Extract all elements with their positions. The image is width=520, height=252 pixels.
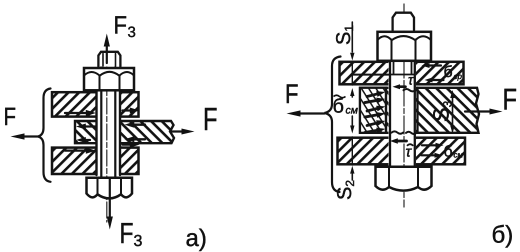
force arrow F right (fig a)	[172, 130, 185, 132]
svg-text:см: см	[346, 105, 358, 117]
nut N1 facets	[100, 76, 120, 90]
bolt B1 protruding threaded end	[98, 52, 120, 67]
brace left (fig b)	[325, 57, 341, 193]
force arrow F right (fig b)	[465, 110, 492, 112]
nut N2 facets	[392, 40, 416, 61]
svg-text:τ: τ	[408, 72, 414, 88]
plate 1 (top plate, fig a)	[52, 92, 139, 116]
force arrow F3 down	[109, 179, 111, 218]
friction arrows: middle plate top (point left)	[84, 125, 96, 127]
svg-text:3: 3	[128, 24, 136, 41]
bolt B2 head	[376, 167, 432, 191]
dim line S3	[452, 95, 454, 126]
svg-text:а): а)	[186, 225, 207, 252]
svg-text:F: F	[4, 103, 17, 131]
friction arrows: bottom plate top (point right)	[65, 149, 87, 151]
middle plate hole edges	[386, 88, 418, 133]
shear plane marks lower: squiggles + bold left arrow	[392, 131, 404, 133]
brace left (fig a)	[38, 89, 51, 182]
svg-text:б: б	[333, 96, 344, 118]
plate 1b (top plate, fig b)	[340, 62, 464, 85]
force arrow F left (fig b)	[298, 112, 325, 114]
dim line sigma_sm left	[351, 92, 353, 97]
bearing arrows on strip (point right)	[366, 89, 386, 99]
bolt B2 protruding end	[393, 13, 414, 31]
svg-text:F: F	[120, 218, 134, 250]
nut N1 chamfer arcs	[84, 72, 134, 76]
svg-text:б: б	[444, 144, 453, 161]
svg-text:F: F	[285, 79, 299, 109]
leader S1	[351, 22, 353, 52]
bearing arrows bottom-right (point right)	[422, 144, 436, 146]
bearing strip on middle plate	[360, 88, 386, 133]
bolt B1 shank	[101, 67, 115, 178]
svg-text:б): б)	[492, 222, 514, 249]
head facets	[98, 179, 122, 194]
nut N1	[84, 68, 134, 90]
head facets	[389, 168, 418, 188]
plate 2 (middle plate, fig a)	[75, 121, 174, 143]
force arrow F3 up	[106, 44, 108, 63]
bolt B2 shank	[390, 61, 415, 167]
thread-end line through plate	[352, 74, 390, 76]
hole edge lines	[97, 92, 121, 176]
svg-text:F: F	[503, 84, 518, 117]
svg-text:б: б	[444, 64, 453, 81]
bearing arrows top-right (point left)	[429, 64, 441, 66]
force arrow F left (fig a)	[22, 135, 38, 137]
nut N2 chamfer arcs	[378, 36, 432, 40]
svg-text:F: F	[114, 12, 128, 40]
bolt B1 head	[87, 178, 133, 199]
plate 3b (bottom plate, fig b)	[338, 138, 466, 165]
svg-text:F: F	[203, 101, 218, 137]
svg-text:см: см	[454, 151, 464, 160]
svg-text:3: 3	[134, 233, 143, 250]
leader S2	[351, 174, 353, 180]
plate 3 (bottom plate, fig a)	[52, 148, 139, 174]
friction arrows: top plate underside (point right)	[65, 112, 87, 114]
shear plane marks upper: bold left arrow + squiggle	[398, 85, 406, 88]
svg-text:ср: ср	[454, 72, 463, 81]
friction arrows: middle plate bottom (point left)	[84, 139, 90, 141]
bolt B1 centerline	[106, 46, 108, 222]
plate 2b (middle plate, fig b)	[360, 88, 479, 133]
bolt B2 centerline	[403, 4, 405, 207]
nut N2	[378, 32, 432, 61]
bolt hole clearance (white)	[97, 91, 120, 177]
thread lines in top plate	[390, 61, 415, 75]
bolt hole (white, fitted)	[389, 61, 417, 167]
